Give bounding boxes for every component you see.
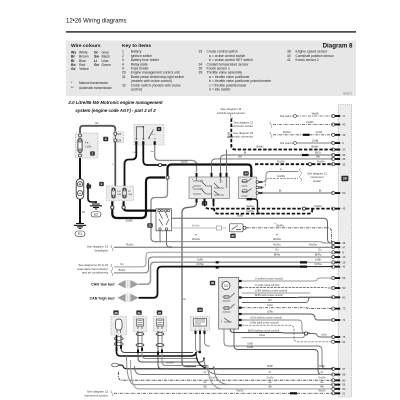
svg-text:Ro/Ge: Ro/Ge	[277, 160, 285, 164]
row Gn/Ge to term 80	[119, 372, 334, 380]
wire Li/Ge bottom merge	[242, 334, 305, 338]
wire throttle Li/Ge nocruise to term 75	[242, 316, 310, 333]
terminal 56 of U26	[332, 383, 346, 387]
svg-text:Gr: Gr	[321, 371, 324, 374]
CAN high wire to term 41	[139, 262, 333, 298]
junction B	[166, 176, 169, 179]
clutch switch 32 box	[230, 224, 247, 232]
battery fuse holder 3 box	[76, 133, 99, 158]
knock sensor 35 box	[154, 317, 167, 332]
svg-text:Li/Ge: Li/Ge	[259, 334, 266, 337]
fuse holder icon 3	[90, 151, 95, 155]
svg-text:instrument cluster: instrument cluster	[231, 124, 253, 128]
svg-text:Sw/Bl: Sw/Bl	[126, 219, 133, 223]
svg-text:diagnostic connector: diagnostic connector	[227, 135, 253, 139]
svg-text:Sw/Bl: Sw/Bl	[247, 346, 254, 349]
svg-text:Br/Bl (without cruise control): Br/Bl (without cruise control)	[248, 329, 279, 332]
svg-text:110A: 110A	[85, 145, 91, 149]
wire throttle Li/Ro to term 74	[242, 310, 333, 320]
wire F5 to brake switch	[124, 208, 158, 211]
ignition switch pins	[135, 141, 156, 145]
terminal 45 of U26	[332, 207, 346, 211]
wire Sw/Ge row 2	[214, 203, 314, 214]
terminal 6 of U26	[332, 141, 345, 145]
knock sensor 41 box	[134, 317, 147, 332]
terminal 41 of U26	[332, 265, 346, 269]
plate code	[343, 92, 353, 96]
throttle valve 39 box	[219, 278, 239, 330]
wire throttle Li to term 56	[242, 277, 333, 281]
svg-text:system (engine code AGY) - par: system (engine code AGY) - part 2 of 2	[75, 108, 156, 113]
row not used term 17	[280, 111, 333, 118]
page header text	[66, 19, 126, 25]
svg-text:73: 73	[342, 307, 346, 311]
see diagram 16 diagnostic connector note	[227, 131, 253, 139]
terminal 35 of U26	[332, 153, 346, 157]
svg-text:34: 34	[244, 172, 248, 176]
svg-text:Gn: Gn	[120, 262, 124, 266]
svg-text:39: 39	[211, 281, 215, 285]
svg-text:d = idle switch: d = idle switch	[209, 88, 231, 92]
svg-text:Green: Green	[102, 63, 112, 67]
fuse output ring connectors overlay	[111, 206, 125, 209]
wire Sw/Ge row 1 to term 45	[205, 203, 334, 210]
svg-text:43: 43	[342, 123, 346, 127]
brake pedal switch 31 box	[156, 209, 172, 231]
wire cruise switch grey drop	[182, 203, 197, 367]
cruise control switch 33 box	[189, 177, 230, 199]
camshaft sensor pins and wires	[195, 331, 211, 352]
terminal 33 of U26	[332, 162, 346, 166]
CAN high bus arrows	[117, 294, 138, 302]
knock sensor 1 icon 35	[157, 310, 162, 314]
svg-text:Manual transmission: Manual transmission	[79, 81, 108, 85]
row Gn to term 8	[114, 248, 333, 267]
wire clutch switch Ws/Ro	[246, 222, 333, 247]
coolant temp sensor 34 box	[239, 177, 257, 199]
svg-text:41: 41	[287, 58, 291, 62]
svg-text:headlights: headlights	[94, 249, 108, 253]
svg-text:75: 75	[342, 335, 346, 339]
svg-text:Li/Ro: Li/Ro	[267, 310, 273, 313]
svg-text:33: 33	[199, 50, 203, 54]
fuse F5 output pin	[122, 201, 125, 209]
svg-text:47: 47	[342, 245, 346, 249]
svg-text:33: 33	[342, 162, 346, 166]
cruise switch bottom pins	[196, 199, 215, 203]
throttle icon 39	[210, 281, 215, 285]
terminal 43 of U26	[332, 123, 346, 127]
svg-text:20: 20	[342, 148, 346, 152]
svg-text:E2: E2	[94, 213, 98, 217]
terminal 20 of U26	[332, 148, 346, 152]
svg-text:cluster: cluster	[313, 179, 321, 183]
svg-text:Li/Ge (without cruise control): Li/Ge (without cruise control)	[250, 316, 282, 319]
svg-text:Knock sensor 2: Knock sensor 2	[296, 58, 319, 62]
wire brake switch to Ws/Ge row	[159, 231, 161, 243]
svg-text:38: 38	[114, 311, 118, 315]
svg-text:35: 35	[158, 311, 162, 315]
svg-text:Ro/Gn: Ro/Gn	[126, 243, 134, 247]
svg-text:67: 67	[342, 367, 346, 371]
svg-text:Sw/Ge: Sw/Ge	[246, 209, 254, 213]
wire cruise to term 35	[221, 150, 334, 172]
svg-text:Ws/Gr: Ws/Gr	[236, 390, 243, 393]
knock sensor 35 rings and wires	[156, 331, 214, 369]
svg-text:50: 50	[342, 387, 346, 391]
row Ws/Ge to term 46	[158, 234, 333, 243]
left connector ring bottom	[112, 362, 175, 367]
coolant sensor terminals	[256, 181, 262, 195]
fuse Fa 110A	[78, 139, 92, 153]
svg-text:50: 50	[342, 191, 346, 195]
see diagram 11 instrument cluster note top	[231, 120, 254, 128]
terminal 19 of U26	[332, 133, 346, 137]
svg-text:4: 4	[105, 137, 107, 141]
Br/Ws row to term 20	[227, 119, 333, 150]
clutch switch icon 32	[230, 234, 235, 238]
svg-text:instrument cluster: instrument cluster	[84, 393, 108, 397]
svg-text:Gr: Gr	[183, 298, 186, 301]
svg-text:92: 92	[342, 340, 346, 344]
svg-text:Ro/Sw: Ro/Sw	[309, 243, 317, 247]
wire brake switch Ws/Gn connector	[172, 224, 227, 230]
terminal 17 of U26	[332, 114, 346, 118]
svg-text:Ws/Ro: Ws/Ro	[276, 224, 284, 228]
control unit icon 26	[341, 176, 348, 181]
key to items legend	[122, 43, 335, 91]
diagram number	[323, 43, 353, 50]
terminal 80 of U26	[332, 295, 346, 299]
svg-text:Gr: Gr	[269, 371, 272, 374]
camshaft sensor icon 40	[197, 308, 202, 312]
wire ignition 30b to junction A	[143, 145, 166, 165]
throttle left pins	[216, 261, 219, 268]
CAN high bus label	[90, 297, 116, 301]
battery icon 1	[87, 184, 92, 188]
svg-text:26: 26	[343, 177, 347, 181]
terminal 80 of U26	[332, 378, 346, 382]
wire junction B down to Ws/Ge row	[151, 179, 168, 241]
terminal 28 of U26	[332, 260, 346, 264]
row Ws to term 50	[131, 360, 334, 389]
wire battery negative to ground E1	[80, 200, 85, 224]
svg-text:Gn: Gn	[275, 248, 279, 252]
row Ws/Ge Gn/Gr term 19	[270, 130, 333, 138]
header rule	[66, 31, 356, 32]
row Ge to term 56	[127, 356, 334, 385]
wire terminal 506 down to fuse F10	[112, 142, 115, 186]
cruise switch top pins	[196, 173, 228, 177]
control unit U26 box	[338, 105, 351, 398]
CAN low wire to term 28	[139, 258, 333, 285]
wire throttle Ro row	[242, 297, 311, 302]
svg-text:Not used 4: Not used 4	[280, 141, 294, 145]
terminal 50 of U26	[332, 387, 346, 391]
row Ro/Gn to term 47	[114, 243, 333, 248]
svg-text:Gr/Bl: Gr/Bl	[247, 342, 253, 345]
wire coolant sensor Gn/Ws	[259, 174, 302, 188]
wire F10 to junction B riser	[112, 178, 165, 223]
CAN low bus arrows	[117, 280, 138, 288]
wire throttle Br/Bl nocruise	[230, 329, 310, 333]
diagram title	[67, 100, 163, 113]
terminal 46 of U26	[332, 241, 346, 245]
relay plate icon 4	[103, 137, 108, 141]
svg-text:Bl/Ro: Bl/Ro	[274, 252, 281, 256]
svg-text:control): control)	[131, 88, 142, 92]
row Ro/Ge dashed term 33	[255, 160, 333, 166]
throttle right pins	[239, 280, 242, 327]
svg-text:M: M	[224, 283, 227, 288]
svg-text:Sw/Ge: Sw/Ge	[246, 204, 254, 208]
wire ignition 15 to cruise switch	[150, 145, 196, 172]
svg-text:Sw/Ge: Sw/Ge	[314, 204, 322, 208]
wire throttle Li/Ws row	[242, 289, 310, 293]
svg-text:Ws/Ge: Ws/Ge	[283, 130, 291, 134]
speed sensor icon 38	[113, 310, 118, 314]
terminal 50 of U26	[332, 191, 346, 195]
svg-text:32: 32	[231, 234, 235, 238]
svg-text:Br/Bl: Br/Bl	[267, 365, 273, 368]
camshaft sensor 40 box	[191, 317, 210, 331]
terminal 73 of U26	[332, 307, 346, 311]
wire throttle Li b term 50	[242, 284, 333, 288]
wire coolant sensor thick black drop	[247, 198, 261, 214]
svg-text:Gn: Gn	[318, 248, 322, 252]
svg-text:Key to items: Key to items	[122, 43, 151, 49]
svg-text:Gn/Ge: Gn/Ge	[266, 377, 274, 380]
wire throttle Sw/Bl down	[234, 329, 333, 375]
svg-text:Li (without cruise control): Li (without cruise control)	[255, 277, 283, 280]
terminal 75 of U26	[332, 335, 346, 339]
terminal 56 of U26	[332, 276, 346, 280]
svg-text:Br/Ro: Br/Ro	[119, 268, 126, 272]
svg-text:19: 19	[342, 133, 346, 137]
svg-text:Ro/Gn: Ro/Gn	[273, 243, 281, 247]
svg-text:Li/Ws (with cruise control): Li/Ws (with cruise control)	[250, 322, 279, 325]
svg-text:Or/Br: Or/Br	[197, 258, 203, 262]
see diagrams 15 19 note	[77, 263, 113, 276]
svg-text:H32671: H32671	[343, 92, 353, 96]
speed sensor connector rings	[114, 337, 123, 346]
svg-text:Ws/Gr: Ws/Gr	[318, 390, 325, 393]
terminal 50 of U26	[332, 286, 346, 290]
svg-text:31: 31	[148, 224, 152, 228]
row Gr to term 68	[135, 359, 334, 375]
svg-text:CAN 'high bus': CAN 'high bus'	[90, 297, 116, 301]
svg-text:Wire colours: Wire colours	[71, 43, 101, 49]
svg-text:Br/Ws: Br/Ws	[311, 145, 319, 149]
terminal block 500/506	[114, 132, 124, 143]
wire ignition 30 to fuse F5	[125, 145, 137, 186]
svg-text:74: 74	[342, 318, 346, 322]
svg-text:Ro/Ge: Ro/Ge	[317, 160, 325, 164]
row Br/Bl to term 67	[119, 352, 334, 369]
svg-text:Sw/Bl: Sw/Bl	[181, 160, 188, 164]
cruise switch icon 33	[202, 201, 207, 205]
engine speed sensor 38 box	[111, 317, 127, 336]
coolant sensor icon 34	[243, 171, 248, 175]
wire brake switch to Ro/Gn row	[167, 231, 172, 249]
header key panel	[66, 41, 356, 97]
row not used term 6	[280, 138, 333, 145]
svg-text:Diagram 8: Diagram 8	[323, 43, 353, 50]
svg-text:32: 32	[122, 83, 126, 87]
svg-text:Gn: Gn	[94, 63, 99, 67]
see diagram 11 vehicle speed sensor note	[217, 107, 245, 120]
svg-text:31: 31	[122, 75, 126, 79]
wire cruise to Br/Ws row	[226, 150, 228, 173]
svg-text:12•26 Wiring diagrams: 12•26 Wiring diagrams	[66, 19, 126, 25]
wire fuse Fa to terminal 500	[80, 121, 115, 133]
see diagram 13 headlights note	[87, 245, 113, 253]
fuse F10 output pin	[111, 201, 114, 209]
svg-text:Li/Ge: Li/Ge	[321, 334, 327, 337]
svg-text:Gn/Bl: Gn/Bl	[312, 138, 319, 142]
see diagram 11 instrument cluster note mid	[307, 171, 327, 183]
wire cruise to term 36	[212, 154, 334, 172]
see diagram 11 note bottom	[84, 389, 113, 397]
wire throttle Li/Ws cruise to term 92	[242, 322, 333, 342]
ground E2 wire	[88, 183, 97, 203]
ground E2	[90, 204, 102, 217]
brake switch icon 31	[147, 223, 152, 227]
terminal 10 of U26	[332, 255, 346, 259]
svg-text:41: 41	[137, 311, 141, 315]
terminal 21 of U26	[332, 391, 346, 395]
ring junction term 75	[304, 332, 333, 337]
ignition switch icon 2	[157, 127, 162, 131]
ground E1	[74, 224, 86, 237]
wire colours legend	[71, 43, 112, 90]
svg-text:and air conditioning: and air conditioning	[82, 271, 108, 275]
svg-text:Bl/Gr: Bl/Gr	[315, 150, 321, 154]
svg-text:Automatic transmission: Automatic transmission	[79, 86, 112, 90]
knock sensor 41 rings and wires	[136, 331, 204, 362]
svg-text:45: 45	[342, 207, 346, 211]
svg-text:E1: E1	[78, 232, 82, 236]
row Gr/Ws term 43	[270, 120, 333, 128]
svg-text:Gn/Ws: Gn/Ws	[166, 362, 174, 365]
fuse holder icon 9	[99, 182, 104, 186]
wire battery to fuse Fa	[79, 158, 81, 179]
svg-text:50: 50	[342, 286, 346, 290]
wire throttle Li/Ge to term 73	[242, 304, 333, 309]
svg-text:Bl/Ro: Bl/Ro	[315, 252, 322, 256]
terminal 8 of U26	[332, 250, 345, 254]
svg-text:Ro: Ro	[95, 121, 99, 125]
svg-text:10A: 10A	[117, 193, 121, 196]
svg-text:39: 39	[199, 71, 203, 75]
svg-text:10: 10	[342, 255, 346, 259]
svg-text:Br/Bl (with cruise control): Br/Bl (with cruise control)	[255, 294, 283, 297]
fuse F10 10A	[112, 188, 122, 198]
svg-text:Ge: Ge	[71, 67, 76, 71]
battery B1	[76, 179, 84, 199]
svg-text:17: 17	[342, 114, 346, 118]
svg-text:Li/Ge: Li/Ge	[267, 304, 274, 307]
terminal 68 of U26	[332, 373, 346, 377]
bottom junction knot	[199, 351, 206, 360]
row Ro/Gn to term 21	[114, 390, 333, 395]
svg-text:Or/Sw: Or/Sw	[196, 262, 203, 266]
terminal 67 of U26	[332, 367, 346, 371]
wire throttle Gr/Bl down	[224, 329, 333, 369]
wire coolant sensor Li	[259, 167, 302, 182]
junction A	[158, 163, 161, 166]
svg-text:56: 56	[342, 276, 346, 280]
svg-text:41: 41	[342, 265, 346, 269]
svg-text:Or/Br: Or/Br	[315, 258, 321, 262]
svg-text:Gn/Ge: Gn/Ge	[318, 377, 326, 380]
svg-text:80: 80	[342, 295, 346, 299]
CAN low bus label	[91, 283, 115, 287]
wire brake switch Br/Bl row	[172, 213, 334, 243]
svg-text:10A: 10A	[128, 193, 132, 196]
svg-text:Li (with cruise control): Li (with cruise control)	[255, 284, 279, 287]
fuse holder 9 box	[107, 186, 134, 201]
svg-text:40: 40	[198, 308, 202, 312]
svg-text:2.0 Litre/85 kW Motronic engin: 2.0 Litre/85 kW Motronic engine manageme…	[67, 100, 163, 105]
wire coolant sensor Bl to term 50	[259, 188, 333, 193]
terminal 92 of U26	[332, 340, 346, 344]
row Br/Ro to term 10	[114, 252, 333, 273]
svg-text:Gr/Ws: Gr/Ws	[306, 120, 314, 124]
svg-text:Br/Ws: Br/Ws	[256, 145, 264, 149]
svg-text:Gr: Gr	[204, 371, 207, 374]
svg-text:Ws/Bl: Ws/Bl	[312, 111, 319, 115]
svg-text:Not used 1: Not used 1	[280, 114, 294, 118]
svg-text:Br/Bl: Br/Bl	[319, 365, 325, 368]
knock sensor 2 icon 41	[136, 310, 141, 314]
wire throttle Br/Bl cruise	[242, 294, 333, 298]
svg-text:CAN 'low bus': CAN 'low bus'	[91, 283, 115, 287]
svg-text:Gn/Ws: Gn/Ws	[277, 174, 286, 178]
fuse F5 10A	[123, 188, 133, 198]
svg-text:Gn/Gr: Gn/Gr	[315, 130, 322, 134]
speed sensor wires	[116, 335, 197, 356]
svg-text:21: 21	[342, 391, 346, 395]
svg-text:Or/Sw: Or/Sw	[314, 262, 321, 266]
terminal 36 of U26	[332, 157, 346, 161]
svg-text:Sw: Sw	[150, 151, 153, 153]
svg-text:Ws/Gn: Ws/Gn	[192, 224, 200, 228]
svg-text:68: 68	[342, 373, 346, 377]
wire Sw/Bl main feed	[168, 160, 253, 178]
terminal 74 of U26	[332, 318, 346, 322]
ignition switch 2 box	[134, 125, 164, 146]
svg-text:Li/Ws (without cruise control): Li/Ws (without cruise control)	[255, 289, 287, 292]
terminal 47 of U26	[332, 245, 346, 249]
svg-text:Yellow: Yellow	[79, 67, 89, 71]
svg-text:36: 36	[342, 157, 346, 161]
